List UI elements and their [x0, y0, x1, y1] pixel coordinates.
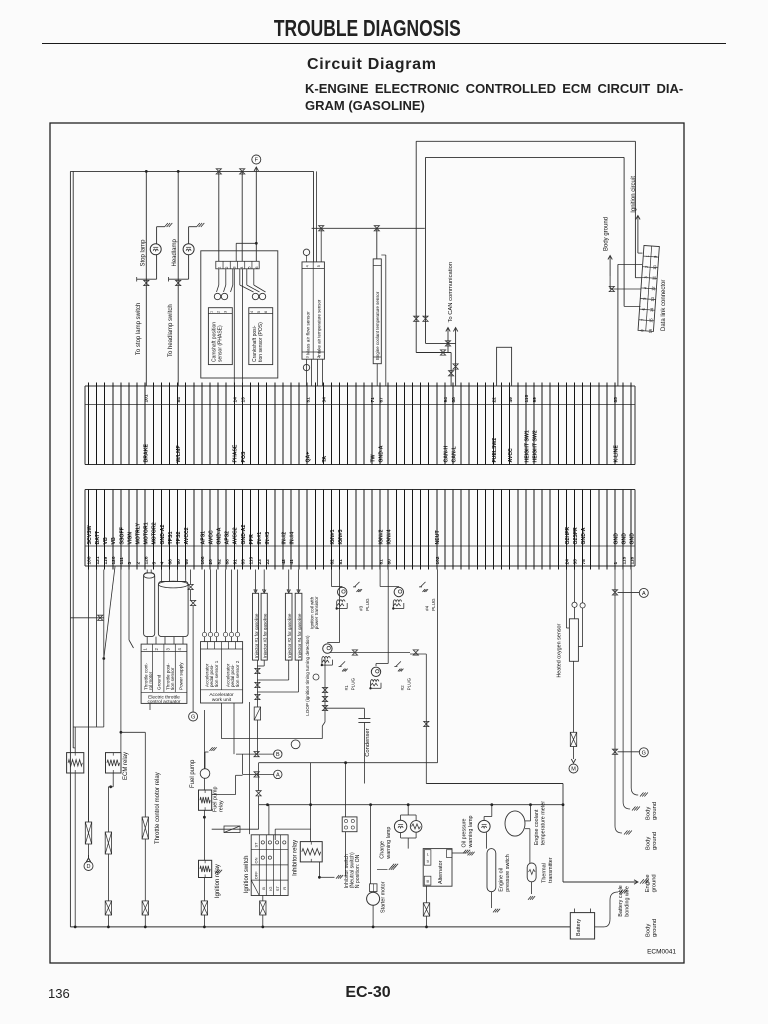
svg-text:G: G	[191, 715, 195, 721]
svg-text:TPS2: TPS2	[176, 531, 182, 544]
svg-text:AVCC2: AVCC2	[233, 527, 239, 544]
svg-text:L: L	[427, 853, 429, 857]
svg-text:QA+: QA+	[306, 452, 312, 463]
svg-text:Oil pressure: Oil pressure	[462, 818, 468, 847]
svg-text:ON: ON	[253, 857, 258, 863]
svg-text:Stop lamp: Stop lamp	[140, 239, 146, 267]
svg-text:91: 91	[233, 559, 239, 565]
svg-text:BRAKE: BRAKE	[144, 444, 150, 463]
svg-text:3: 3	[233, 267, 237, 269]
svg-text:Heated oxygen sensor: Heated oxygen sensor	[557, 623, 563, 677]
svg-text:GND-A2: GND-A2	[241, 524, 247, 544]
svg-text:83: 83	[241, 559, 247, 565]
svg-text:22: 22	[492, 397, 498, 403]
svg-text:99: 99	[532, 397, 538, 403]
svg-text:12: 12	[650, 285, 655, 291]
svg-text:B: B	[261, 887, 266, 890]
svg-text:#4: #4	[425, 605, 430, 611]
svg-text:4: 4	[177, 648, 182, 651]
svg-text:Injector #1 for gasoline: Injector #1 for gasoline	[254, 613, 259, 658]
svg-text:bonding wire: bonding wire	[625, 886, 631, 917]
svg-text:power transistor: power transistor	[314, 596, 319, 629]
svg-text:PHASE: PHASE	[233, 444, 239, 462]
svg-text:Data link connector: Data link connector	[661, 280, 667, 331]
svg-text:1: 1	[613, 562, 619, 565]
svg-text:VIGN: VIGN	[127, 532, 133, 545]
svg-text:relay: relay	[219, 800, 225, 812]
svg-text:126: 126	[143, 556, 149, 564]
svg-text:MOTRLY: MOTRLY	[136, 523, 142, 545]
svg-text:10: 10	[652, 264, 657, 270]
svg-text:#1: #1	[344, 685, 349, 691]
svg-text:106: 106	[200, 556, 206, 564]
svg-text:M: M	[571, 767, 576, 773]
svg-text:ECM0041: ECM0041	[647, 949, 676, 956]
svg-text:CAN-H: CAN-H	[443, 446, 449, 463]
svg-text:Fuel pump: Fuel pump	[190, 759, 196, 788]
svg-text:F: F	[255, 158, 259, 164]
svg-text:5: 5	[247, 267, 251, 269]
svg-text:4: 4	[642, 286, 647, 289]
svg-text:81: 81	[378, 559, 384, 565]
svg-text:IN-#4: IN-#4	[289, 532, 295, 545]
svg-text:PLUG: PLUG	[351, 677, 356, 690]
svg-text:GND: GND	[622, 533, 628, 545]
svg-text:tion sensor: tion sensor	[170, 667, 175, 690]
svg-text:HEIGHT SW2: HEIGHT SW2	[532, 430, 538, 462]
svg-text:Alternator: Alternator	[438, 860, 444, 884]
svg-text:1: 1	[645, 254, 650, 257]
svg-text:2: 2	[135, 562, 141, 565]
svg-text:ST: ST	[253, 842, 258, 848]
svg-text:Battery: Battery	[576, 919, 582, 936]
svg-text:3: 3	[165, 648, 170, 651]
svg-text:Body: Body	[646, 807, 652, 820]
svg-text:100: 100	[87, 556, 93, 564]
svg-text:4: 4	[240, 267, 244, 269]
svg-text:B: B	[276, 752, 280, 758]
svg-text:To headlamp switch: To headlamp switch	[168, 304, 174, 357]
svg-text:13: 13	[650, 296, 655, 302]
svg-text:67: 67	[378, 397, 384, 403]
svg-text:Engine coolant: Engine coolant	[534, 809, 540, 845]
svg-text:pressure switch: pressure switch	[505, 854, 511, 891]
svg-text:4: 4	[250, 311, 254, 313]
svg-text:4: 4	[306, 265, 310, 267]
svg-text:Engine: Engine	[645, 874, 651, 892]
svg-text:Injector #2 for gasoline: Injector #2 for gasoline	[287, 613, 292, 658]
svg-text:ECM relay: ECM relay	[123, 752, 129, 780]
svg-text:11: 11	[651, 275, 656, 280]
svg-text:Thermal: Thermal	[542, 863, 548, 883]
svg-text:PLUG: PLUG	[365, 598, 370, 611]
svg-text:IN-#2: IN-#2	[281, 532, 287, 545]
svg-text:6: 6	[641, 307, 646, 310]
svg-text:AVCC: AVCC	[208, 530, 214, 545]
svg-text:3: 3	[643, 275, 648, 278]
svg-text:Body: Body	[646, 924, 652, 937]
svg-text:Condenser: Condenser	[365, 728, 371, 756]
svg-text:111: 111	[119, 557, 125, 565]
svg-text:Engine coolant temperature sen: Engine coolant temperature sensor	[375, 291, 380, 360]
svg-text:Inhibitor relay: Inhibitor relay	[293, 840, 299, 876]
svg-text:ground: ground	[652, 874, 658, 892]
svg-text:119: 119	[103, 556, 109, 564]
svg-text:W/LMP: W/LMP	[176, 445, 182, 463]
svg-text:1: 1	[143, 648, 148, 651]
svg-text:Injector #3 for gasoline: Injector #3 for gasoline	[262, 613, 267, 658]
svg-text:tion sensor (POS): tion sensor (POS)	[258, 322, 264, 362]
svg-text:IG: IG	[268, 886, 273, 890]
svg-text:Battery cable: Battery cable	[618, 885, 624, 916]
svg-text:SCVSW: SCVSW	[87, 525, 93, 544]
svg-text:AVCC: AVCC	[508, 448, 514, 463]
svg-text:Ground: Ground	[157, 674, 162, 690]
svg-text:ground: ground	[652, 802, 658, 820]
svg-text:3: 3	[127, 562, 133, 565]
svg-text:110: 110	[524, 394, 530, 402]
svg-text:14: 14	[233, 397, 239, 403]
svg-text:To CAN communication: To CAN communication	[448, 262, 454, 323]
svg-text:GND: GND	[630, 533, 636, 545]
svg-text:1: 1	[218, 267, 222, 269]
svg-text:work unit: work unit	[212, 697, 232, 703]
svg-text:temperature meter: temperature meter	[541, 801, 547, 846]
svg-text:IGN#4: IGN#4	[387, 529, 393, 544]
svg-text:101: 101	[143, 394, 149, 402]
svg-text:#3: #3	[359, 605, 364, 611]
svg-text:PLUG: PLUG	[406, 677, 411, 690]
svg-text:warning lamp: warning lamp	[468, 815, 474, 848]
svg-text:APS1: APS1	[200, 531, 206, 545]
svg-text:5: 5	[642, 297, 647, 300]
svg-text:S: S	[427, 860, 430, 864]
svg-text:O2HFR: O2HFR	[565, 527, 571, 545]
svg-text:22: 22	[265, 559, 271, 565]
svg-text:ground: ground	[652, 832, 658, 850]
svg-text:CAN-L: CAN-L	[451, 446, 457, 463]
svg-text:20: 20	[208, 559, 214, 565]
svg-text:78: 78	[581, 559, 587, 565]
svg-text:71: 71	[370, 397, 376, 403]
svg-text:VB: VB	[111, 537, 117, 544]
svg-text:BATT: BATT	[95, 530, 101, 544]
svg-text:Intake air temperature sensor: Intake air temperature sensor	[317, 299, 322, 357]
svg-text:5: 5	[257, 311, 261, 313]
svg-text:B: B	[427, 880, 430, 884]
svg-text:94: 94	[443, 397, 449, 403]
svg-text:42: 42	[281, 559, 287, 565]
svg-text:tion sensor 2: tion sensor 2	[235, 660, 240, 687]
svg-text:6: 6	[264, 311, 268, 313]
svg-text:GND-A: GND-A	[379, 445, 385, 462]
svg-text:PLUG: PLUG	[431, 598, 436, 611]
svg-text:Power supply: Power supply	[179, 662, 184, 690]
svg-text:#2: #2	[400, 685, 405, 691]
svg-text:A: A	[642, 591, 646, 597]
svg-text:51: 51	[305, 397, 311, 403]
svg-text:K-LINE: K-LINE	[613, 445, 619, 463]
svg-text:41: 41	[289, 559, 295, 565]
svg-text:6: 6	[255, 267, 259, 269]
svg-text:LOOP (ignition timing turning: LOOP (ignition timing turning detection)	[305, 635, 310, 716]
svg-text:IN-#3: IN-#3	[265, 532, 271, 545]
svg-text:82: 82	[330, 559, 336, 565]
svg-text:80: 80	[386, 559, 392, 565]
svg-text:Ignition switch: Ignition switch	[244, 856, 250, 894]
svg-text:Injector #4 for gasoline: Injector #4 for gasoline	[297, 613, 302, 658]
svg-text:9: 9	[653, 255, 658, 258]
svg-text:7: 7	[640, 318, 645, 321]
svg-text:IGN#2: IGN#2	[379, 529, 385, 544]
svg-text:warning lamp: warning lamp	[386, 827, 392, 860]
svg-text:Headlamp: Headlamp	[172, 238, 178, 266]
svg-text:rol motor: rol motor	[148, 671, 153, 690]
svg-text:35: 35	[573, 559, 579, 565]
svg-text:1: 1	[209, 311, 213, 313]
svg-text:2: 2	[225, 267, 229, 269]
svg-text:IGN#1: IGN#1	[330, 529, 336, 544]
svg-text:69: 69	[184, 559, 190, 565]
svg-text:14: 14	[649, 307, 654, 313]
svg-text:FUELSW2: FUELSW2	[492, 438, 498, 463]
svg-text:GND-A: GND-A	[217, 527, 223, 544]
svg-text:102: 102	[435, 556, 441, 564]
svg-text:84: 84	[176, 397, 182, 403]
svg-text:5: 5	[317, 265, 321, 267]
svg-text:Mass air flow sensor: Mass air flow sensor	[306, 311, 312, 355]
svg-text:16: 16	[647, 328, 652, 334]
svg-text:TPS1: TPS1	[168, 531, 174, 544]
svg-text:GND: GND	[613, 533, 619, 545]
svg-text:Throttle control motor relay: Throttle control motor relay	[155, 772, 161, 844]
svg-text:IN-#1: IN-#1	[257, 532, 263, 545]
svg-text:G: G	[642, 750, 646, 756]
svg-text:FPR: FPR	[249, 534, 255, 545]
svg-text:2: 2	[217, 311, 221, 313]
svg-text:sensor (PHASE): sensor (PHASE)	[218, 325, 224, 362]
svg-text:A: A	[276, 772, 280, 778]
svg-text:SSOFF: SSOFF	[119, 527, 125, 544]
svg-text:D: D	[87, 864, 91, 870]
svg-text:15: 15	[648, 317, 653, 323]
svg-text:66: 66	[168, 559, 174, 565]
svg-text:O2SFR: O2SFR	[573, 527, 579, 545]
svg-text:GND-A2: GND-A2	[160, 524, 166, 544]
svg-text:OFF: OFF	[253, 871, 258, 880]
svg-text:MOTOR2: MOTOR2	[152, 522, 158, 544]
svg-text:24: 24	[565, 559, 571, 565]
svg-text:IGN#3: IGN#3	[338, 529, 344, 544]
svg-text:85: 85	[613, 397, 619, 403]
svg-text:POS: POS	[241, 451, 247, 462]
svg-text:ST: ST	[275, 886, 280, 892]
svg-text:Body: Body	[646, 837, 652, 850]
svg-text:82: 82	[216, 559, 222, 565]
svg-text:88: 88	[451, 397, 457, 403]
svg-text:TW: TW	[370, 454, 376, 462]
svg-text:ground: ground	[652, 919, 658, 937]
svg-text:3: 3	[306, 356, 310, 358]
svg-text:HEIGHT SW1: HEIGHT SW1	[524, 430, 530, 462]
svg-text:Body ground: Body ground	[604, 217, 610, 251]
svg-text:4: 4	[160, 562, 166, 565]
svg-text:control actuator: control actuator	[147, 699, 180, 705]
svg-text:49: 49	[508, 397, 514, 403]
svg-text:13: 13	[241, 397, 247, 403]
svg-text:3: 3	[224, 311, 228, 313]
svg-text:113: 113	[249, 556, 255, 564]
svg-text:MOTOR1: MOTOR1	[144, 522, 150, 544]
svg-text:23: 23	[257, 559, 263, 565]
svg-text:APS2: APS2	[225, 531, 231, 545]
svg-text:TA: TA	[322, 456, 328, 463]
svg-text:GND-A: GND-A	[581, 527, 587, 544]
svg-text:NEUT: NEUT	[435, 530, 441, 545]
svg-text:116: 116	[629, 556, 635, 564]
svg-text:transmitter: transmitter	[548, 857, 554, 883]
svg-text:Engine oil: Engine oil	[499, 868, 505, 892]
svg-text:tion sensor 1: tion sensor 1	[214, 660, 219, 687]
svg-text:2: 2	[317, 356, 321, 358]
svg-text:81: 81	[338, 559, 344, 565]
svg-text:2: 2	[644, 265, 649, 268]
svg-text:121: 121	[95, 556, 101, 564]
svg-text:5: 5	[152, 562, 158, 565]
svg-text:50: 50	[176, 559, 182, 565]
svg-text:Ignition circuit: Ignition circuit	[631, 176, 637, 213]
svg-text:8: 8	[639, 328, 644, 331]
svg-text:Starter motor: Starter motor	[381, 881, 387, 913]
svg-text:To stop lamp switch: To stop lamp switch	[136, 303, 142, 355]
svg-text:120: 120	[111, 556, 117, 564]
svg-text:AVCC2: AVCC2	[184, 527, 190, 544]
svg-text:N position: ON: N position: ON	[355, 854, 361, 888]
svg-text:34: 34	[322, 397, 328, 403]
svg-text:VB: VB	[103, 537, 109, 544]
svg-text:88: 88	[224, 559, 230, 565]
svg-text:2: 2	[154, 648, 159, 651]
svg-text:Ignition relay: Ignition relay	[215, 864, 221, 898]
svg-text:R: R	[282, 887, 287, 890]
svg-text:Charge: Charge	[380, 841, 386, 859]
svg-text:115: 115	[621, 556, 627, 564]
